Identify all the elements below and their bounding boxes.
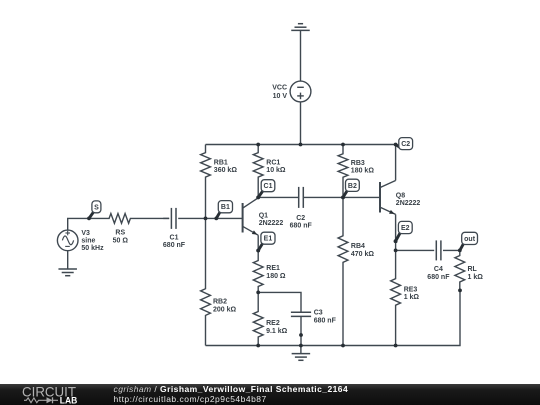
svg-text:out: out	[464, 236, 476, 243]
svg-text:50 kHz: 50 kHz	[81, 245, 104, 252]
svg-text:VCC: VCC	[272, 85, 287, 92]
svg-text:C1: C1	[170, 234, 179, 241]
svg-text:RC1: RC1	[266, 160, 280, 167]
svg-text:RB2: RB2	[213, 299, 227, 306]
svg-text:10 kΩ: 10 kΩ	[266, 167, 286, 174]
svg-text:RE1: RE1	[266, 265, 280, 272]
svg-text:E2: E2	[401, 225, 410, 232]
svg-text:1 kΩ: 1 kΩ	[468, 274, 484, 281]
svg-text:C1: C1	[264, 183, 273, 190]
svg-text:sine: sine	[81, 238, 95, 245]
svg-text:S: S	[94, 204, 99, 211]
svg-text:B2: B2	[348, 183, 357, 190]
svg-text:RB1: RB1	[214, 160, 228, 167]
svg-text:RB3: RB3	[351, 160, 365, 167]
svg-text:RE3: RE3	[404, 286, 418, 293]
svg-text:200 kΩ: 200 kΩ	[213, 307, 237, 314]
svg-text:680 nF: 680 nF	[314, 317, 337, 324]
svg-text:180 kΩ: 180 kΩ	[351, 168, 375, 175]
svg-text:B1: B1	[221, 204, 230, 211]
svg-text:360 kΩ: 360 kΩ	[214, 167, 238, 174]
svg-text:10 V: 10 V	[273, 93, 288, 100]
svg-text:470 kΩ: 470 kΩ	[351, 251, 375, 258]
svg-text:C2: C2	[401, 141, 410, 148]
svg-text:680 nF: 680 nF	[163, 242, 186, 249]
svg-text:LAB: LAB	[60, 396, 78, 405]
svg-text:http://circuitlab.com/cp2p9c54: http://circuitlab.com/cp2p9c54b4b87	[114, 394, 267, 404]
svg-text:9.1 kΩ: 9.1 kΩ	[266, 328, 288, 335]
svg-text:C3: C3	[314, 309, 323, 316]
svg-text:RB4: RB4	[351, 243, 365, 250]
svg-text:2N2222: 2N2222	[396, 200, 421, 207]
svg-text:RS: RS	[115, 230, 125, 237]
svg-text:Q1: Q1	[259, 213, 268, 220]
svg-text:C2: C2	[296, 215, 305, 222]
svg-text:680 nF: 680 nF	[427, 274, 450, 281]
svg-text:50 Ω: 50 Ω	[113, 237, 129, 244]
svg-text:180 Ω: 180 Ω	[266, 273, 286, 280]
svg-text:C4: C4	[434, 266, 443, 273]
svg-text:Q8: Q8	[396, 193, 405, 200]
svg-text:V3: V3	[81, 230, 90, 237]
svg-text:cgrisham / Grisham_Verwillow_F: cgrisham / Grisham_Verwillow_Final Schem…	[114, 384, 349, 394]
svg-text:RE2: RE2	[266, 320, 280, 327]
svg-text:2N2222: 2N2222	[259, 220, 284, 227]
svg-text:RL: RL	[468, 266, 478, 273]
svg-text:E1: E1	[264, 236, 273, 243]
svg-text:1 kΩ: 1 kΩ	[404, 294, 420, 301]
svg-text:680 nF: 680 nF	[290, 223, 313, 230]
